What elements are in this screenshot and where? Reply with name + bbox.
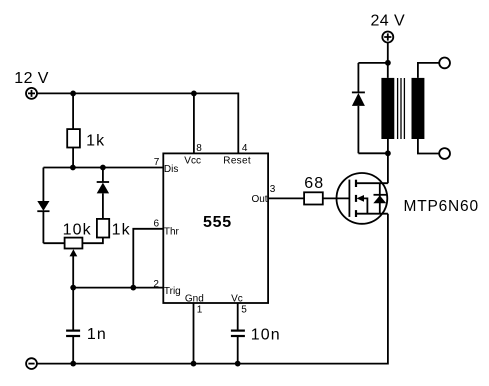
svg-text:Reset: Reset	[223, 155, 251, 166]
svg-text:Gnd: Gnd	[185, 293, 204, 304]
svg-text:1n: 1n	[87, 326, 107, 343]
svg-text:MTP6N60: MTP6N60	[404, 198, 479, 215]
svg-text:Vcc: Vcc	[184, 155, 201, 166]
svg-text:10k: 10k	[63, 222, 92, 239]
svg-text:5: 5	[241, 304, 247, 315]
svg-text:6: 6	[154, 219, 160, 230]
svg-text:Vc: Vc	[231, 293, 243, 304]
svg-text:Dis: Dis	[164, 164, 178, 175]
svg-text:24 V: 24 V	[371, 13, 406, 30]
svg-text:1k: 1k	[112, 222, 131, 239]
svg-text:10n: 10n	[251, 326, 281, 343]
svg-text:3: 3	[270, 184, 276, 195]
svg-text:1: 1	[197, 304, 203, 315]
svg-text:7: 7	[154, 157, 160, 168]
svg-text:Out: Out	[251, 194, 267, 205]
svg-text:2: 2	[153, 279, 159, 290]
svg-text:Thr: Thr	[164, 227, 180, 238]
svg-text:555: 555	[203, 214, 232, 231]
svg-text:Trig: Trig	[164, 286, 181, 297]
svg-text:1k: 1k	[86, 132, 105, 149]
svg-text:68: 68	[304, 175, 324, 192]
svg-text:4: 4	[242, 143, 248, 154]
svg-text:8: 8	[196, 143, 202, 154]
svg-text:12 V: 12 V	[14, 70, 49, 87]
